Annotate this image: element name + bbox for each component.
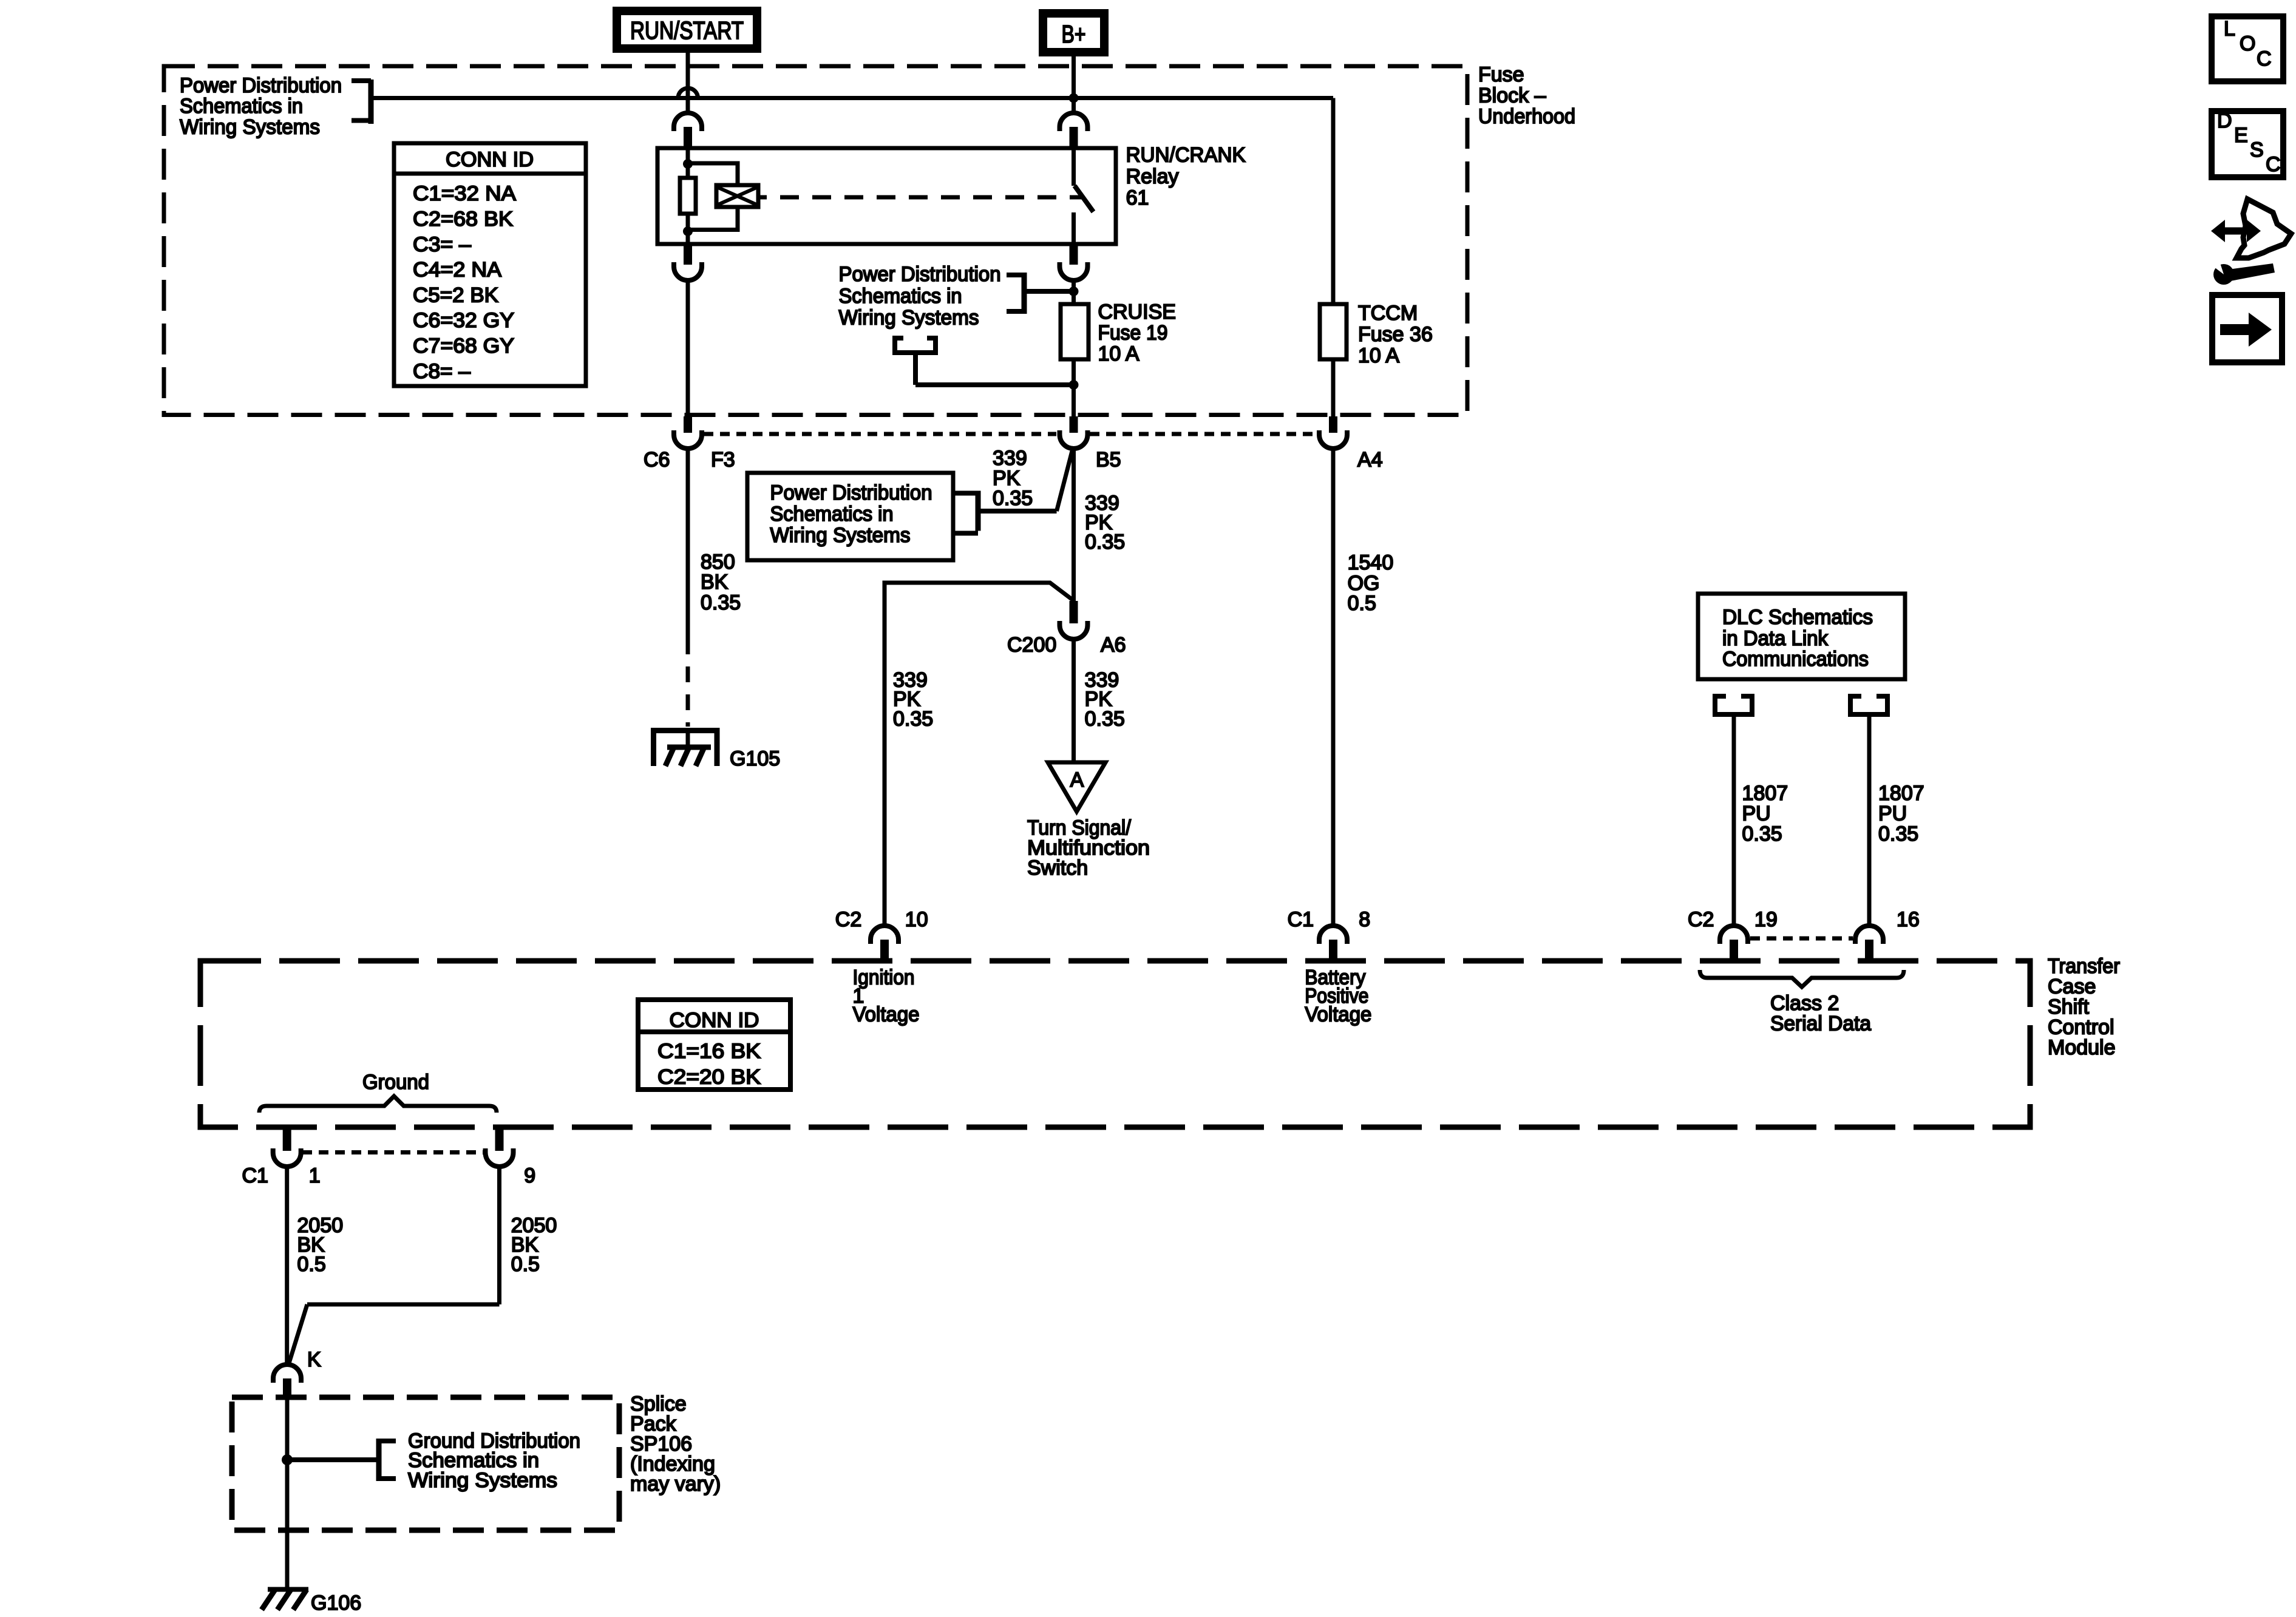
svg-text:C1=32 NA: C1=32 NA [413, 182, 516, 205]
svg-text:Schematics in: Schematics in [770, 503, 894, 526]
svg-text:Schematics in: Schematics in [180, 95, 303, 118]
svg-text:C: C [2257, 47, 2272, 70]
svg-text:1807: 1807 [1878, 782, 1924, 805]
svg-text:Power Distribution: Power Distribution [839, 263, 1001, 286]
svg-text:Underhood: Underhood [1478, 105, 1575, 128]
svg-text:1807: 1807 [1742, 782, 1788, 805]
svg-text:Wiring Systems: Wiring Systems [839, 307, 979, 330]
svg-text:A4: A4 [1357, 449, 1383, 472]
svg-text:PU: PU [1878, 802, 1907, 825]
svg-text:may vary): may vary) [630, 1473, 721, 1496]
svg-text:C2: C2 [835, 908, 861, 931]
svg-text:RUN/START: RUN/START [630, 16, 744, 44]
svg-text:B+: B+ [1062, 20, 1086, 48]
svg-text:0.35: 0.35 [993, 487, 1033, 510]
svg-text:Module: Module [2048, 1036, 2116, 1059]
svg-text:C8= –: C8= – [413, 360, 470, 383]
svg-text:1540: 1540 [1348, 551, 1394, 574]
svg-text:0.35: 0.35 [701, 591, 741, 614]
svg-text:Class 2: Class 2 [1770, 992, 1839, 1015]
svg-text:B5: B5 [1096, 449, 1121, 472]
svg-text:TCCM: TCCM [1358, 302, 1418, 325]
svg-text:Voltage: Voltage [853, 1003, 920, 1026]
svg-text:Power Distribution: Power Distribution [770, 481, 932, 504]
svg-text:CONN ID: CONN ID [446, 148, 534, 171]
svg-text:10 A: 10 A [1358, 344, 1399, 367]
svg-text:0.35: 0.35 [893, 708, 933, 731]
svg-text:A: A [1070, 768, 1084, 792]
svg-text:S: S [2250, 138, 2264, 161]
svg-text:C200: C200 [1007, 634, 1056, 657]
svg-text:C1: C1 [242, 1164, 268, 1187]
svg-text:0.5: 0.5 [511, 1253, 540, 1276]
svg-text:10: 10 [905, 908, 928, 931]
svg-text:C2=20 BK: C2=20 BK [657, 1066, 761, 1089]
svg-text:Switch: Switch [1027, 856, 1088, 880]
svg-text:G105: G105 [730, 747, 780, 770]
svg-text:Communications: Communications [1722, 648, 1869, 671]
svg-text:C2=68 BK: C2=68 BK [413, 208, 513, 231]
svg-text:C: C [2266, 153, 2281, 176]
svg-text:C6=32 GY: C6=32 GY [413, 309, 514, 332]
svg-text:E: E [2234, 124, 2248, 147]
svg-text:8: 8 [1359, 908, 1370, 931]
svg-text:CRUISE: CRUISE [1098, 300, 1176, 324]
svg-text:C3= –: C3= – [413, 233, 471, 256]
svg-text:BK: BK [701, 571, 729, 594]
svg-text:Serial Data: Serial Data [1770, 1012, 1871, 1036]
svg-text:16: 16 [1897, 908, 1920, 931]
svg-text:Block –: Block – [1478, 84, 1546, 107]
svg-text:0.35: 0.35 [1085, 531, 1125, 554]
svg-text:Wiring Systems: Wiring Systems [770, 524, 911, 547]
svg-text:Voltage: Voltage [1305, 1003, 1371, 1026]
svg-text:RUN/CRANK: RUN/CRANK [1126, 144, 1246, 167]
svg-text:61: 61 [1126, 186, 1149, 209]
svg-text:9: 9 [524, 1164, 535, 1187]
svg-text:0.35: 0.35 [1742, 822, 1782, 846]
svg-text:0.5: 0.5 [1348, 592, 1376, 615]
svg-text:F3: F3 [711, 449, 735, 472]
svg-text:L: L [2224, 18, 2235, 41]
svg-text:C2: C2 [1688, 908, 1714, 931]
svg-text:1: 1 [309, 1164, 321, 1187]
svg-text:C6: C6 [644, 449, 670, 472]
svg-text:Schematics in: Schematics in [839, 285, 962, 308]
svg-text:DLC Schematics: DLC Schematics [1722, 606, 1873, 629]
svg-text:Fuse 19: Fuse 19 [1098, 322, 1168, 345]
svg-text:A6: A6 [1101, 634, 1126, 657]
svg-text:Control: Control [2048, 1016, 2114, 1039]
svg-text:CONN ID: CONN ID [670, 1009, 759, 1032]
svg-text:K: K [307, 1348, 321, 1371]
svg-text:in Data Link: in Data Link [1722, 627, 1829, 650]
svg-text:C1=16 BK: C1=16 BK [657, 1040, 761, 1063]
svg-text:C1: C1 [1288, 908, 1314, 931]
svg-text:Ground: Ground [362, 1071, 429, 1094]
svg-text:C7=68 GY: C7=68 GY [413, 334, 514, 358]
svg-text:Relay: Relay [1126, 165, 1179, 188]
svg-text:Fuse 36: Fuse 36 [1358, 323, 1433, 346]
svg-text:Wiring Systems: Wiring Systems [408, 1469, 557, 1492]
svg-text:PU: PU [1742, 802, 1771, 825]
svg-text:10 A: 10 A [1098, 342, 1140, 365]
svg-text:0.5: 0.5 [297, 1253, 326, 1276]
svg-text:G106: G106 [311, 1592, 361, 1615]
svg-text:19: 19 [1754, 908, 1778, 931]
svg-text:Power Distribution: Power Distribution [180, 74, 342, 97]
svg-text:Case: Case [2048, 975, 2096, 998]
svg-text:Shift: Shift [2048, 995, 2090, 1019]
svg-text:0.35: 0.35 [1085, 708, 1125, 731]
svg-text:C4=2 NA: C4=2 NA [413, 259, 501, 282]
svg-text:0.35: 0.35 [1878, 822, 1918, 846]
svg-text:O: O [2240, 32, 2255, 55]
svg-text:Fuse: Fuse [1478, 63, 1524, 86]
svg-text:Transfer: Transfer [2048, 955, 2120, 978]
svg-text:D: D [2217, 109, 2232, 132]
svg-text:Wiring Systems: Wiring Systems [180, 116, 320, 139]
svg-text:C5=2 BK: C5=2 BK [413, 283, 498, 307]
